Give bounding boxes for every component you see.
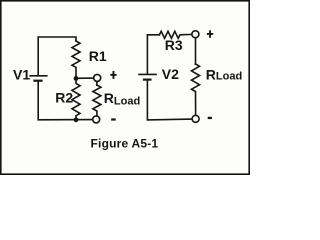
- wire: node to + terminal: [76, 77, 93, 79]
- resistor RLoad (right circuit): [192, 64, 200, 115]
- svg-text:V2: V2: [162, 66, 179, 82]
- minus sign (right circuit): [208, 117, 212, 119]
- wire: right circuit top: [147, 35, 159, 74]
- svg-text:R3: R3: [165, 37, 183, 53]
- battery V1: [29, 76, 47, 81]
- resistor RLoad (left circuit): [93, 85, 101, 116]
- node A junction dot: [74, 76, 79, 81]
- svg-text:V1: V1: [13, 67, 30, 83]
- resistor R3: [159, 31, 191, 38]
- border frame: [1, 1, 249, 174]
- wire: + terminal to RLoad: [96, 82, 98, 86]
- svg-text:Figure A5-1: Figure A5-1: [91, 137, 159, 151]
- plus sign (right circuit): [207, 30, 213, 37]
- wire: left circuit bottom: [38, 82, 92, 120]
- plus sign (left circuit): [110, 71, 116, 79]
- resistor R2: [72, 80, 80, 120]
- minus sign (left circuit): [111, 118, 116, 120]
- wire: right circuit bottom: [147, 81, 191, 120]
- terminal circle + (left circuit): [94, 74, 101, 81]
- battery V2: [138, 74, 157, 79]
- wire: + terminal to RLoad (right): [195, 38, 197, 64]
- terminal circle - (right circuit): [192, 115, 199, 122]
- resistor R1: [72, 41, 80, 78]
- node B junction dot: [74, 117, 79, 122]
- terminal circle + (right circuit): [192, 31, 199, 38]
- terminal circle - (left circuit): [93, 116, 100, 123]
- wire: left circuit top: [38, 37, 76, 75]
- svg-text:R1: R1: [89, 48, 107, 64]
- svg-text:R2: R2: [55, 90, 73, 106]
